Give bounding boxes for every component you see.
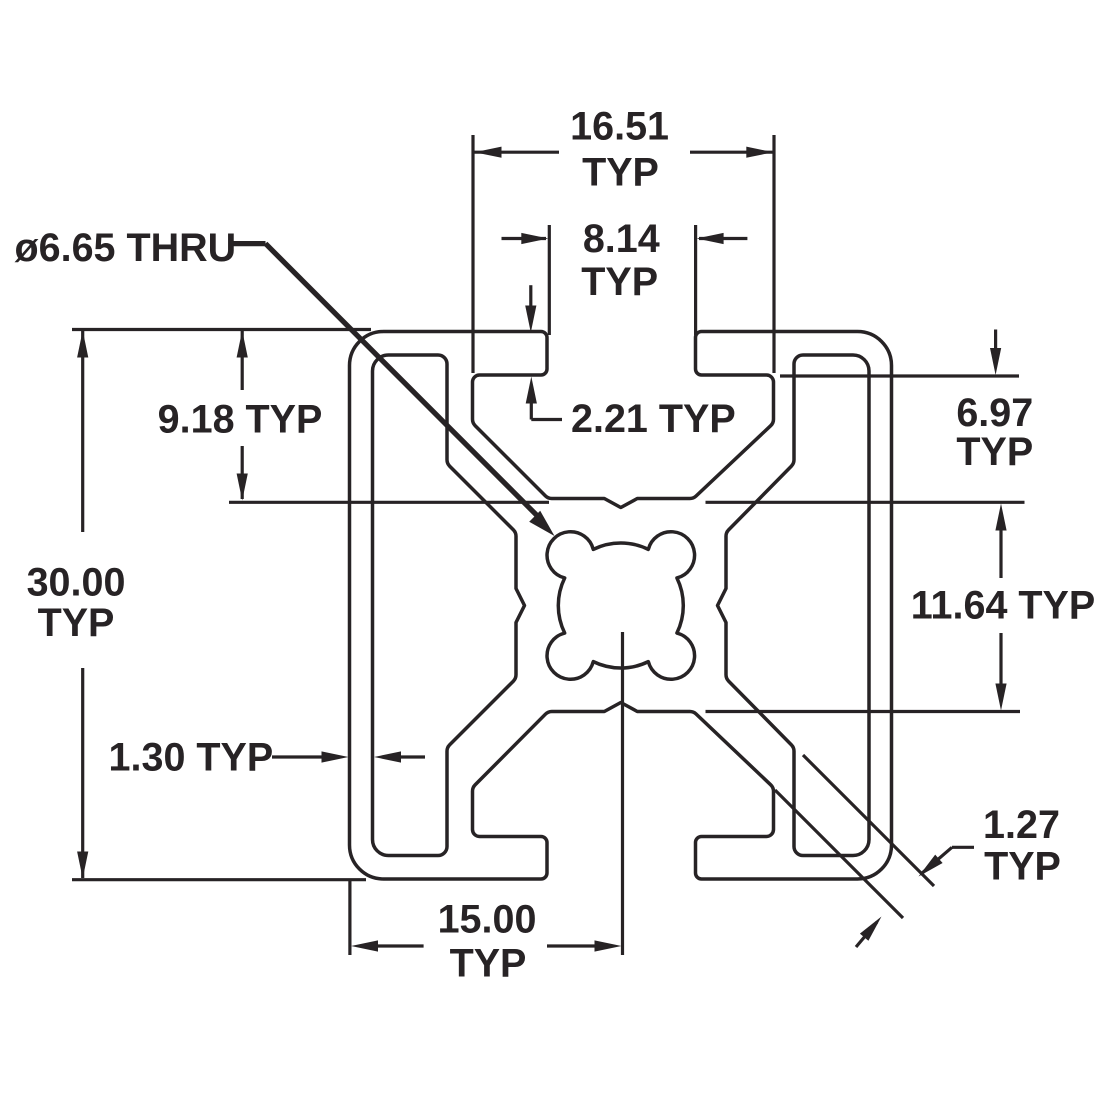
extension line bottom left (30.00) (72, 878, 366, 881)
dim 1.27 diagonal extension lines (803, 755, 934, 886)
leader line for ø6.65 THRU (231, 244, 538, 517)
dim 15.00 dimension lines (375, 944, 424, 947)
vertical centerline below bore (621, 632, 624, 955)
extension line bottom floor level right (706, 710, 1021, 713)
shared extension line top left (30.00 / 9.18) (72, 328, 371, 331)
arrowheads dim 8.14 (521, 233, 548, 244)
arrowheads dim 30.00 (77, 331, 88, 358)
svg-text:11.64 TYP: 11.64 TYP (911, 583, 1095, 627)
arrowheads dim 11.64 (995, 504, 1006, 531)
svg-text:9.18 TYP: 9.18 TYP (158, 398, 323, 442)
extension line slot floor level right (706, 501, 1025, 504)
arrowheads dim 15.00 (351, 940, 378, 951)
dim 16.51 dimension lines (475, 151, 560, 154)
arrowheads dim 1.30 (322, 751, 349, 762)
extrusion profile outer outline with top and bottom T-slots (350, 332, 892, 880)
arrowhead leader ø6.65 (529, 511, 554, 536)
dim 1.27 leader lines (921, 847, 952, 874)
dim 30.00 dimension line (81, 331, 84, 532)
svg-text:1.30 TYP: 1.30 TYP (109, 735, 274, 779)
extension line lip underside right (780, 374, 1019, 377)
center bore star-shaped hole (547, 532, 695, 680)
svg-text:ø6.65 THRU: ø6.65 THRU (15, 226, 237, 270)
arrowheads dim 16.51 (475, 147, 502, 158)
dim 6.97 arrow stem (994, 330, 997, 351)
svg-text:6.97: 6.97 (956, 391, 1033, 435)
extension line at slot floor level left (229, 501, 549, 504)
dim 1.30 arrow stems (272, 755, 323, 758)
dim 15.00 extension line (348, 881, 351, 955)
right closed side cavity (718, 355, 870, 856)
svg-text:2.21 TYP: 2.21 TYP (571, 397, 736, 441)
dim 11.64 dimension line (999, 529, 1002, 578)
dim 2.21 arrow stems and leader (529, 285, 532, 308)
arrowheads dim 6.97 (990, 348, 1001, 375)
svg-text:15.00: 15.00 (438, 898, 537, 942)
dim 16.51 extension lines (471, 135, 474, 373)
svg-text:TYP: TYP (984, 845, 1061, 889)
arrowheads dim 9.18 (237, 331, 248, 358)
svg-text:8.14: 8.14 (583, 217, 660, 261)
arrowheads dim 2.21 (525, 306, 536, 333)
arrowheads dim 1.27 (919, 855, 943, 877)
svg-text:TYP: TYP (581, 260, 658, 304)
svg-text:TYP: TYP (956, 430, 1033, 474)
dim 9.18 dimension line (241, 331, 244, 390)
svg-text:TYP: TYP (582, 151, 659, 195)
svg-text:1.27: 1.27 (983, 803, 1060, 847)
svg-text:16.51: 16.51 (570, 105, 669, 149)
svg-text:TYP: TYP (450, 942, 527, 986)
dim 8.14 arrow stems (502, 237, 547, 240)
dim 8.14 extension lines (548, 225, 551, 335)
left closed side cavity (373, 355, 525, 856)
svg-text:TYP: TYP (38, 601, 115, 645)
svg-text:30.00: 30.00 (27, 560, 126, 604)
